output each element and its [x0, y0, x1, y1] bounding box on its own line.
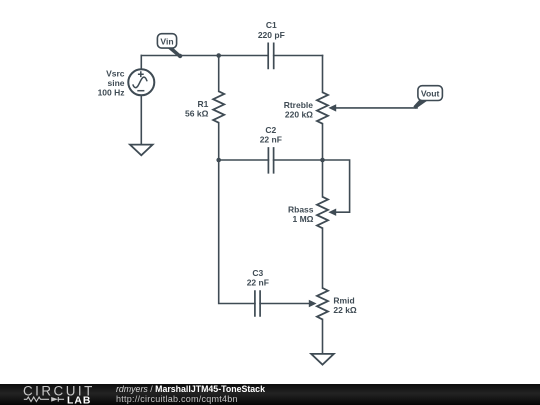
- label C3 22 nF: [247, 268, 269, 288]
- label Rtreble 220 kOhm: [284, 100, 314, 120]
- ground under Rmid: [311, 354, 334, 365]
- wire wrap-around to Rbass wiper: [323, 160, 350, 212]
- svg-text:1 MΩ: 1 MΩ: [293, 214, 314, 224]
- wire junction down to Rbass top: [322, 160, 324, 197]
- svg-text:http://circuitlab.com/cqmt4bn: http://circuitlab.com/cqmt4bn: [116, 394, 238, 404]
- svg-text:Vin: Vin: [160, 37, 173, 47]
- wire from C1 right plate to right column: [274, 55, 323, 57]
- svg-text:56 kΩ: 56 kΩ: [185, 109, 209, 119]
- svg-text:C3: C3: [252, 268, 263, 278]
- wire R1 bottom to junction: [218, 123, 220, 160]
- capacitor C1: [268, 43, 274, 70]
- wiper arrow Rbass: [328, 209, 336, 216]
- capacitor C3: [255, 290, 260, 317]
- potentiometer Rmid: [317, 288, 328, 319]
- wire C2 right plate to junction: [274, 159, 323, 161]
- node dot Vin attach: [178, 54, 182, 58]
- svg-text:220 pF: 220 pF: [258, 30, 285, 40]
- wire Rmid bottom to ground: [322, 319, 324, 353]
- voltage source Vsrc: [128, 69, 154, 95]
- wiper arrow Rmid: [309, 300, 317, 307]
- svg-text:R1: R1: [198, 99, 209, 109]
- resistor R1: [213, 91, 224, 122]
- svg-text:Vsrc: Vsrc: [106, 69, 125, 79]
- potentiometer Rtreble: [317, 92, 328, 123]
- wire Rbass bottom to Rmid top: [322, 228, 324, 288]
- wire Vout to Rtreble wiper: [336, 107, 417, 109]
- svg-text:Rtreble: Rtreble: [284, 100, 314, 110]
- svg-text:220 kΩ: 220 kΩ: [285, 110, 313, 120]
- svg-text:sine: sine: [107, 78, 124, 88]
- wire right column down to Rtreble top: [322, 56, 324, 93]
- svg-text:22 nF: 22 nF: [260, 134, 282, 144]
- label Rbass 1 MOhm: [288, 204, 314, 224]
- flag Vout: [413, 86, 442, 109]
- node dot top junction: [216, 53, 221, 58]
- wire left column top to R1: [218, 56, 220, 92]
- flag Vin: [157, 34, 181, 58]
- CircuitLab logo resistor-diode glyph: [24, 397, 64, 402]
- capacitor C2: [268, 147, 273, 174]
- wire top from Vsrc to C1 left plate: [141, 55, 268, 57]
- wire Rtreble bottom to junction row: [322, 124, 324, 160]
- wire Vsrc bottom lead to ground: [140, 95, 142, 144]
- svg-text:LAB: LAB: [67, 395, 91, 405]
- node dot middle-left junction: [216, 158, 221, 163]
- svg-text:Vout: Vout: [421, 88, 440, 98]
- svg-text:Rbass: Rbass: [288, 204, 314, 214]
- wiper arrow Rtreble: [328, 104, 336, 111]
- label Rmid 22 kOhm: [333, 296, 357, 316]
- svg-text:100 Hz: 100 Hz: [98, 88, 125, 98]
- wire Vsrc top lead: [140, 56, 142, 70]
- wire left column down and right to C3 left plate: [219, 160, 255, 304]
- label C2 22 nF: [260, 125, 282, 145]
- svg-text:Rmid: Rmid: [333, 296, 354, 306]
- wire C3 right plate to Rmid wiper: [260, 303, 309, 305]
- svg-text:C2: C2: [265, 125, 276, 135]
- wire middle row left (junction to C2 left plate): [219, 159, 269, 161]
- label C1 220 pF: [258, 20, 285, 40]
- svg-text:rdmyers / MarshallJTM45-ToneSt: rdmyers / MarshallJTM45-ToneStack: [116, 384, 265, 394]
- svg-text:22 nF: 22 nF: [247, 277, 269, 287]
- svg-text:C1: C1: [266, 20, 277, 30]
- label R1 56 kOhm: [185, 99, 209, 119]
- potentiometer Rbass: [317, 197, 328, 228]
- ground under Vsrc: [130, 145, 153, 156]
- label Vsrc sine 100 Hz: [98, 69, 125, 98]
- svg-text:22 kΩ: 22 kΩ: [333, 305, 357, 315]
- node dot middle-right junction: [320, 158, 325, 163]
